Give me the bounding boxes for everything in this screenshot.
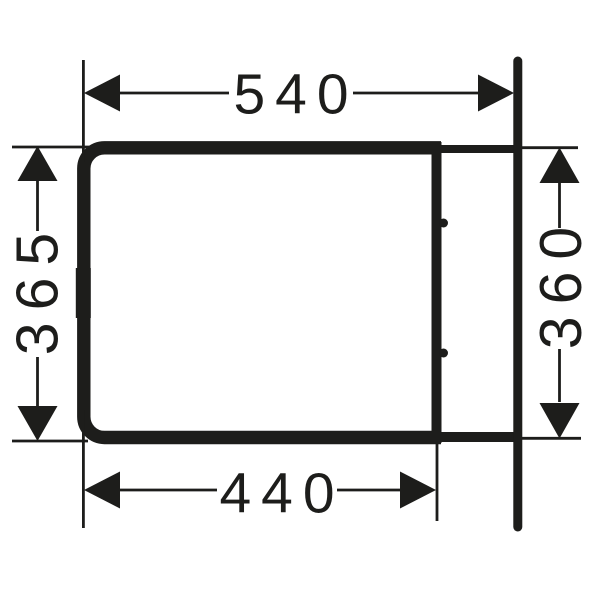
extension line left bottom horizontal	[12, 440, 88, 443]
ceramic top edge (thin segment to wall)	[437, 145, 516, 153]
seat rear vertical line	[432, 142, 442, 443]
dimension 440 left arrow	[84, 472, 120, 509]
dimension 365 line lower segment	[36, 357, 39, 407]
dimension 540 line left segment	[116, 92, 229, 95]
extension line right bottom horizontal	[522, 437, 581, 440]
extension line right top horizontal	[522, 146, 578, 149]
hinge dot upper	[439, 219, 448, 228]
dimension 540 left arrow	[84, 75, 120, 112]
dimension 540 line right segment	[353, 92, 482, 95]
dimension 440 line right segment	[337, 489, 401, 492]
dimension 360 line lower segment	[558, 349, 561, 402]
extension line top-left vertical	[82, 60, 85, 162]
extension line bottom-center vertical	[436, 444, 439, 521]
dimension 360 bottom arrow	[540, 403, 580, 439]
dimension 540 right arrow	[478, 75, 514, 112]
svg-text:540: 540	[233, 63, 358, 127]
dimension 440 right arrow	[400, 472, 436, 509]
dimension 365 line upper segment	[36, 180, 39, 231]
seat outline (rounded left profile)	[84, 148, 441, 438]
svg-text:365: 365	[4, 221, 70, 355]
dimension 360 top arrow	[540, 148, 580, 184]
dimension 365 top arrow	[18, 146, 58, 181]
svg-text:360: 360	[528, 215, 594, 349]
hinge dot lower	[439, 349, 448, 358]
extension line left top horizontal	[12, 146, 95, 149]
svg-text:440: 440	[219, 462, 344, 526]
dimension 440 line left segment	[118, 489, 217, 492]
dimension 365 bottom arrow	[18, 406, 58, 441]
bowl left edge bulge	[76, 268, 91, 318]
ceramic bottom edge (thin segment to wall)	[437, 432, 516, 442]
wall line	[513, 61, 522, 527]
extension line bottom-left vertical	[82, 410, 85, 528]
dimension 360 line upper segment	[558, 182, 561, 228]
